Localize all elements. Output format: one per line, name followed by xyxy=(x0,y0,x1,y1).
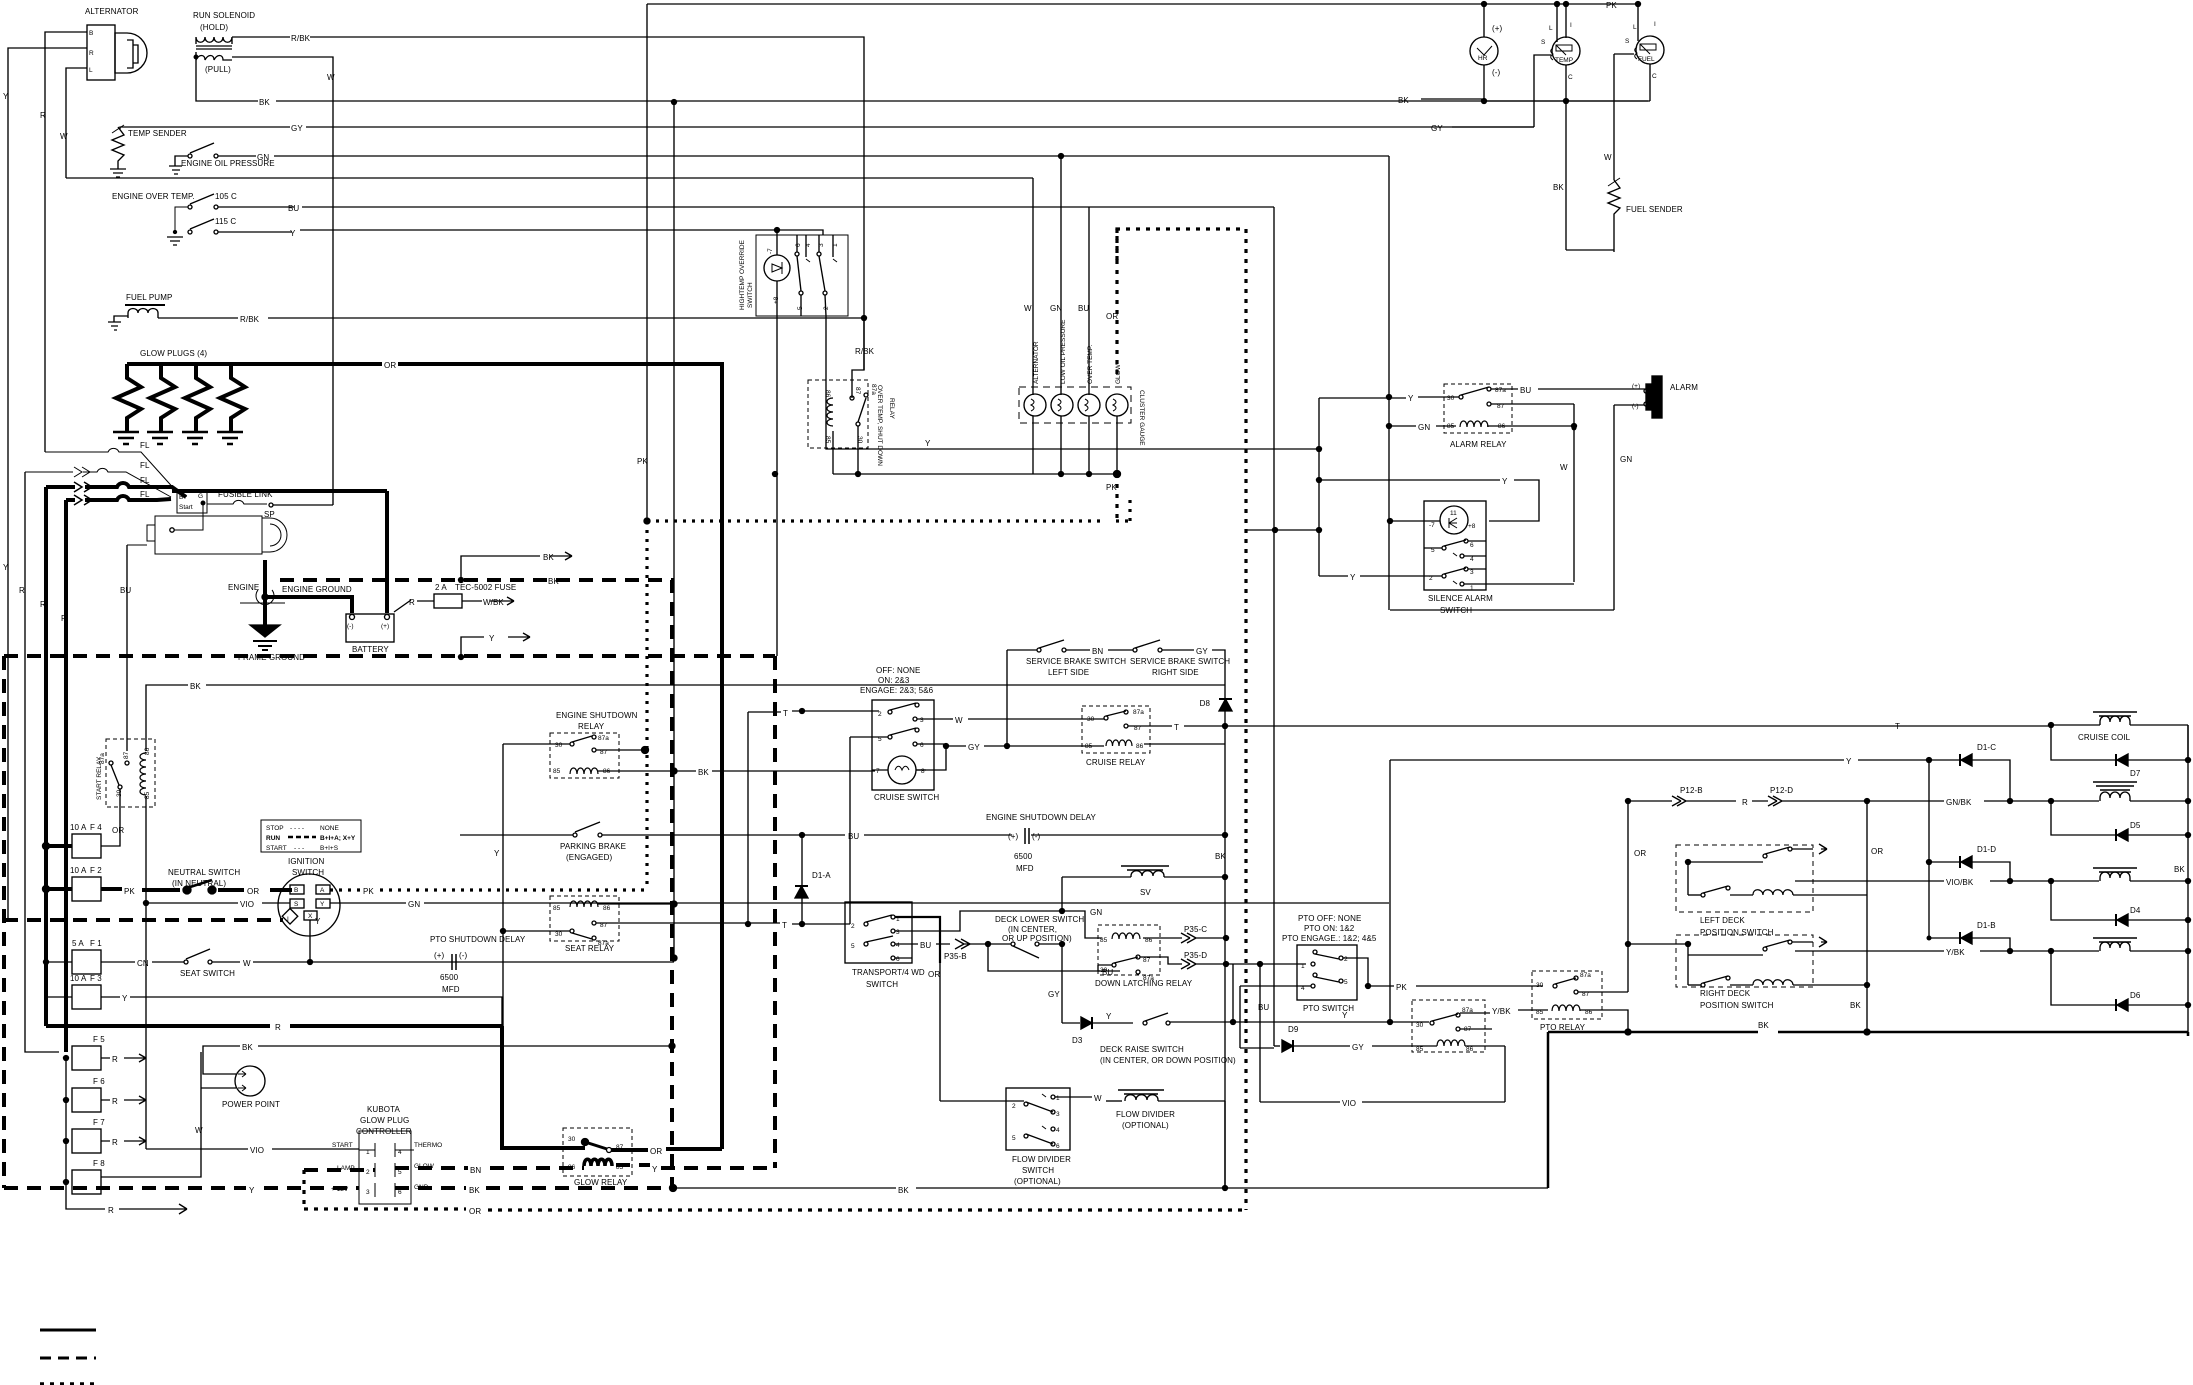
svg-text:5: 5 xyxy=(1012,1135,1016,1142)
svg-text:L: L xyxy=(1633,24,1637,31)
svg-text:OR: OR xyxy=(384,361,396,370)
coil 2 xyxy=(2093,782,2191,804)
svg-text:I: I xyxy=(1570,22,1572,29)
wire R bottom arrow xyxy=(66,1182,187,1214)
svg-text:SILENCE ALARM: SILENCE ALARM xyxy=(1428,594,1493,603)
flow divider switch xyxy=(1006,1088,1071,1186)
svg-text:8: 8 xyxy=(921,768,925,775)
svg-text:BK: BK xyxy=(2174,865,2185,874)
wire PK heavy F2 to ignition B xyxy=(46,889,292,890)
wire BU to over temp lamp xyxy=(1088,207,1090,395)
wire cruise sw 5 to T lower xyxy=(850,737,888,924)
wire BK dashed engine ground xyxy=(280,580,672,1188)
svg-text:BK: BK xyxy=(1850,1001,1861,1010)
svg-text:R: R xyxy=(61,614,67,623)
engine over temp switch 115C xyxy=(167,207,823,245)
wire GN alarm relay coil xyxy=(1389,425,1416,427)
wire BU transport sw pin4 xyxy=(895,943,918,945)
svg-text:(-): (-) xyxy=(1032,832,1041,841)
svg-text:2: 2 xyxy=(851,923,855,930)
coil 3 xyxy=(2093,868,2191,884)
svg-text:MFD: MFD xyxy=(442,985,460,994)
svg-text:30: 30 xyxy=(1100,967,1108,974)
wire Y ignition to silence alarm 2 xyxy=(1319,575,1348,577)
svg-text:VIO/BK: VIO/BK xyxy=(1946,878,1974,887)
svg-text:PK: PK xyxy=(637,457,648,466)
svg-text:Y: Y xyxy=(1502,477,1508,486)
svg-text:A: A xyxy=(320,887,325,894)
svg-text:F 1: F 1 xyxy=(90,939,102,948)
coil 4 xyxy=(2093,938,2191,954)
svg-text:BK: BK xyxy=(1398,96,1409,105)
svg-text:I: I xyxy=(1654,21,1656,28)
svg-text:Y: Y xyxy=(320,901,325,908)
svg-text:86: 86 xyxy=(603,905,611,912)
svg-text:D4: D4 xyxy=(2130,906,2141,915)
svg-text:SWITCH: SWITCH xyxy=(747,282,754,308)
engine shutdown delay capacitor xyxy=(986,813,1225,873)
flow divider coil optional xyxy=(1116,1090,1225,1188)
svg-text:ALTERNATOR: ALTERNATOR xyxy=(85,7,139,16)
svg-text:W: W xyxy=(1560,463,1568,472)
svg-text:HR: HR xyxy=(1478,55,1488,62)
wire flow divider sw pin2 feed xyxy=(940,1100,1024,1102)
wire Y thin x775 upper xyxy=(776,316,778,656)
svg-text:G: G xyxy=(198,493,203,500)
svg-text:(+): (+) xyxy=(1492,24,1503,33)
temp sender xyxy=(110,125,187,177)
wire Y arrow stub xyxy=(461,633,530,657)
svg-text:CN: CN xyxy=(137,959,149,968)
svg-text:30: 30 xyxy=(555,931,563,938)
svg-text:Y: Y xyxy=(652,1165,658,1174)
diode D6 xyxy=(2051,951,2191,1011)
svg-text:87a: 87a xyxy=(99,753,106,764)
svg-text:BK: BK xyxy=(548,577,559,586)
left deck position switch xyxy=(1676,844,1867,937)
engine oil pressure switch xyxy=(169,143,275,174)
SV solenoid xyxy=(1062,866,1225,911)
svg-text:87: 87 xyxy=(854,387,861,395)
wire T vertical to cruise xyxy=(747,712,749,924)
temp gauge xyxy=(1541,2,1580,104)
wire Y dashed to ignition I xyxy=(4,918,283,922)
svg-text:FL: FL xyxy=(140,461,150,470)
svg-text:6: 6 xyxy=(896,956,900,963)
svg-text:SERVICE BRAKE SWITCH: SERVICE BRAKE SWITCH xyxy=(1130,657,1230,666)
wire GY temp sender xyxy=(120,127,290,129)
svg-text:FUEL PUMP: FUEL PUMP xyxy=(126,293,172,302)
fuse F6 xyxy=(64,1077,147,1112)
wire Y dashed bottom xyxy=(4,1186,359,1190)
wire BK start relay 86 xyxy=(146,685,188,751)
svg-text:Y: Y xyxy=(290,229,296,238)
wire W run solenoid pull xyxy=(232,57,333,505)
svg-text:F 6: F 6 xyxy=(93,1077,105,1086)
svg-text:2: 2 xyxy=(1344,956,1348,963)
wire W cruise sw 3 to cruise relay 30 xyxy=(950,718,953,720)
svg-text:87: 87 xyxy=(1143,957,1151,964)
wire BU deck lower bypass xyxy=(988,944,1100,971)
svg-text:R: R xyxy=(89,50,94,57)
svg-text:BATTERY: BATTERY xyxy=(352,645,389,654)
alarm buzzer xyxy=(1614,376,1698,418)
wire W flow divider to coil xyxy=(1055,1096,1092,1098)
svg-text:VIO: VIO xyxy=(250,1146,264,1155)
svg-text:BK: BK xyxy=(469,1186,480,1195)
svg-text:F 2: F 2 xyxy=(90,866,102,875)
wire GY to temp gauge S xyxy=(1534,55,1551,127)
svg-text:BK: BK xyxy=(242,1043,253,1052)
svg-text:Y: Y xyxy=(249,1186,255,1195)
svg-text:3: 3 xyxy=(896,929,900,936)
svg-text:HIGHTEMP OVERRIDE: HIGHTEMP OVERRIDE xyxy=(739,239,746,310)
wire Y/BK latch 87a to PTO relay 85 xyxy=(1460,1012,1490,1014)
svg-text:ALARM RELAY: ALARM RELAY xyxy=(1450,440,1507,449)
svg-text:RELAY: RELAY xyxy=(578,722,605,731)
svg-text:R: R xyxy=(112,1138,118,1147)
svg-text:GN: GN xyxy=(408,900,420,909)
parking brake switch xyxy=(460,822,626,862)
svg-text:5: 5 xyxy=(851,943,855,950)
svg-text:86: 86 xyxy=(1136,743,1144,750)
svg-text:PK: PK xyxy=(124,887,135,896)
svg-text:R: R xyxy=(19,586,25,595)
svg-text:P12-D: P12-D xyxy=(1770,786,1793,795)
down latching relay xyxy=(1095,925,1193,988)
wire BK dashed vertical x672 segment with junctions xyxy=(671,768,677,774)
wire W to alternator lamp xyxy=(1032,178,1034,395)
svg-text:MFD: MFD xyxy=(1016,864,1034,873)
svg-text:RIGHT DECK: RIGHT DECK xyxy=(1700,989,1751,998)
svg-text:B+I+S: B+I+S xyxy=(320,845,339,852)
svg-text:GN/BK: GN/BK xyxy=(1946,798,1972,807)
svg-text:5: 5 xyxy=(1344,979,1348,986)
start relay xyxy=(96,739,155,807)
svg-text:FUSIBLE LINK: FUSIBLE LINK xyxy=(218,490,273,499)
svg-text:BU: BU xyxy=(288,204,299,213)
svg-text:PARKING BRAKE: PARKING BRAKE xyxy=(560,842,626,851)
fuse F3 xyxy=(46,962,502,1026)
svg-text:(-): (-) xyxy=(459,951,468,960)
wire VIO to controller xyxy=(145,903,147,1149)
svg-text:7: 7 xyxy=(876,768,880,775)
wire cruise relay 86 down xyxy=(1144,743,1225,745)
wire GN engine oil pressure xyxy=(274,155,1389,157)
svg-text:R: R xyxy=(112,1097,118,1106)
fuse F7 xyxy=(64,1118,147,1153)
svg-text:CRUISE COIL: CRUISE COIL xyxy=(2078,733,2131,742)
svg-text:S: S xyxy=(294,901,299,908)
svg-text:87a: 87a xyxy=(1580,972,1591,979)
svg-text:OR: OR xyxy=(1634,849,1646,858)
svg-text:Y: Y xyxy=(1106,1012,1112,1021)
svg-text:BK: BK xyxy=(898,1186,909,1195)
svg-text:GY: GY xyxy=(1048,990,1060,999)
svg-text:R/BK: R/BK xyxy=(855,347,875,356)
legend dotted xyxy=(40,1382,96,1385)
hour meter gauge xyxy=(1470,2,1503,104)
svg-text:OVER TEMP.: OVER TEMP. xyxy=(1087,345,1094,384)
svg-text:87a: 87a xyxy=(598,735,609,742)
svg-text:F 5: F 5 xyxy=(93,1035,105,1044)
silence alarm switch xyxy=(1388,501,1575,615)
svg-text:DECK RAISE SWITCH: DECK RAISE SWITCH xyxy=(1100,1045,1184,1054)
svg-text:Y/BK: Y/BK xyxy=(1492,1007,1511,1016)
svg-text:10 A: 10 A xyxy=(70,866,87,875)
svg-text:F 8: F 8 xyxy=(93,1159,105,1168)
svg-text:GN: GN xyxy=(1090,908,1102,917)
svg-text:GN: GN xyxy=(257,153,269,162)
svg-text:Y: Y xyxy=(1408,394,1414,403)
diode D1-D xyxy=(1927,760,2011,938)
svg-text:ENGAGE: 2&3; 5&6: ENGAGE: 2&3; 5&6 xyxy=(860,686,934,695)
svg-text:BN: BN xyxy=(1092,647,1103,656)
wire PK net top: vertical x647 xyxy=(646,4,648,521)
svg-text:R: R xyxy=(40,600,46,609)
PTC shutdown delay capacitor xyxy=(430,935,526,994)
svg-text:2: 2 xyxy=(823,306,830,310)
wire Y row to D1-C xyxy=(1390,759,1844,761)
engine ground heavy xyxy=(265,560,352,613)
wire BU vertical x1274 xyxy=(1273,207,1275,1046)
svg-text:W: W xyxy=(1024,304,1032,313)
glow plugs xyxy=(113,349,245,444)
wire BU parking brake to ESD xyxy=(602,834,845,836)
svg-text:Y: Y xyxy=(1350,573,1356,582)
svg-text:W: W xyxy=(1094,1094,1102,1103)
engine over temp switch 105C xyxy=(112,192,1274,213)
svg-text:3: 3 xyxy=(1056,1111,1060,1118)
svg-text:Y: Y xyxy=(1846,757,1852,766)
wire Y/BK row xyxy=(1795,950,1944,952)
svg-text:(-): (-) xyxy=(1632,403,1639,410)
svg-text:(-): (-) xyxy=(347,623,354,630)
wire VIO bottom xyxy=(1260,1101,1340,1103)
svg-text:Start: Start xyxy=(179,504,193,511)
svg-text:ENGINE: ENGINE xyxy=(228,583,259,592)
svg-text:D9: D9 xyxy=(1288,1025,1299,1034)
wire PK dotted vertical lower xyxy=(645,521,648,890)
wire BK deck coils common xyxy=(1866,801,1868,1032)
svg-text:T: T xyxy=(1174,723,1179,732)
svg-text:(IN CENTER, OR DOWN POSITION): (IN CENTER, OR DOWN POSITION) xyxy=(1100,1056,1236,1065)
svg-text:87a: 87a xyxy=(1495,387,1506,394)
svg-text:6: 6 xyxy=(398,1189,402,1196)
engine shutdown relay xyxy=(550,711,638,778)
svg-text:85: 85 xyxy=(553,905,561,912)
wire VIO/BK row xyxy=(1795,880,1944,882)
wire engine shutdown relay 30 xyxy=(503,743,570,745)
svg-text:85: 85 xyxy=(1536,1009,1544,1016)
wire BK dashed controller gnd xyxy=(395,1186,672,1190)
wire T seat relay 87 xyxy=(596,922,748,924)
svg-text:GLOW RELAY: GLOW RELAY xyxy=(574,1178,628,1187)
wire PK dotted from glow lamp down xyxy=(1115,474,1118,520)
deck lower switch xyxy=(995,915,1084,958)
svg-text:T: T xyxy=(783,709,788,718)
svg-text:C: C xyxy=(1568,74,1573,81)
svg-text:Y: Y xyxy=(315,917,321,926)
svg-text:Y: Y xyxy=(925,439,931,448)
svg-text:GLOW PLUGS (4): GLOW PLUGS (4) xyxy=(140,349,207,358)
svg-text:30: 30 xyxy=(1536,982,1544,989)
svg-text:OR: OR xyxy=(112,826,124,835)
svg-text:S: S xyxy=(1541,39,1546,46)
wire R/BK to over temp relay xyxy=(852,318,864,398)
wire PK dotted from ignition A xyxy=(330,888,645,891)
svg-text:GN: GN xyxy=(1620,455,1632,464)
wire R heavy horizontal lower xyxy=(46,1024,502,1028)
svg-text:L: L xyxy=(89,67,93,74)
svg-text:4: 4 xyxy=(1470,556,1474,563)
svg-text:2 A: 2 A xyxy=(435,583,447,592)
wire pto 2/5 to PK xyxy=(1343,958,1368,986)
wire OR riser x1628 xyxy=(1627,801,1629,992)
wire Y silence alarm top loop xyxy=(1319,479,1500,481)
battery + cable heavy xyxy=(385,491,389,613)
svg-text:R: R xyxy=(1742,798,1748,807)
svg-text:86: 86 xyxy=(144,747,151,755)
svg-text:OR: OR xyxy=(1871,847,1883,856)
fuse F8 xyxy=(64,1052,202,1194)
svg-text:105 C: 105 C xyxy=(215,192,237,201)
wire Y hightemp pin2 to silence area xyxy=(826,316,1319,449)
svg-text:W: W xyxy=(1604,153,1612,162)
wire Y x1319 vertical xyxy=(1318,398,1320,576)
svg-text:PK: PK xyxy=(1106,483,1117,492)
svg-text:PK: PK xyxy=(1606,1,1617,10)
svg-text:87a: 87a xyxy=(870,384,877,395)
svg-text:- - - -: - - - - xyxy=(290,825,304,832)
svg-text:LEFT SIDE: LEFT SIDE xyxy=(1048,668,1089,677)
cruise relay xyxy=(1082,706,1150,767)
wire engine shutdown relay 87 to PK xyxy=(596,749,645,751)
svg-text:-7: -7 xyxy=(767,248,774,254)
svg-text:SV: SV xyxy=(1140,888,1151,897)
svg-text:F 7: F 7 xyxy=(93,1118,105,1127)
svg-text:VIO: VIO xyxy=(240,900,254,909)
svg-text:4: 4 xyxy=(1056,1127,1060,1134)
svg-text:85: 85 xyxy=(1416,1046,1424,1053)
svg-text:POSITION SWITCH: POSITION SWITCH xyxy=(1700,928,1774,937)
svg-text:1: 1 xyxy=(1056,1095,1060,1102)
svg-text:GY: GY xyxy=(1352,1043,1364,1052)
svg-text:FL: FL xyxy=(140,476,150,485)
wire OR dotted to glow lamp xyxy=(1115,229,1118,380)
svg-text:30: 30 xyxy=(555,742,563,749)
right deck position switch xyxy=(1676,935,1867,1010)
wire transport sw pin1 heavy xyxy=(895,917,940,963)
svg-text:BK: BK xyxy=(698,768,709,777)
wire R vertical fuse feed (heavy) xyxy=(44,487,48,1026)
svg-text:W: W xyxy=(955,716,963,725)
wire BK run solenoid xyxy=(196,60,258,101)
fuel gauge xyxy=(1625,2,1664,102)
svg-text:115 C: 115 C xyxy=(215,217,236,226)
PTO switch xyxy=(1282,914,1377,1013)
hightemp override switch xyxy=(739,235,848,316)
diode D8 xyxy=(1219,698,1232,700)
svg-text:T: T xyxy=(1895,722,1900,731)
svg-text:30: 30 xyxy=(1416,1022,1424,1029)
wire OR start relay 30 to F4 xyxy=(101,789,120,846)
legend solid xyxy=(40,1329,96,1332)
svg-text:(OPTIONAL): (OPTIONAL) xyxy=(1014,1177,1061,1186)
svg-text:ENGINE SHUTDOWN DELAY: ENGINE SHUTDOWN DELAY xyxy=(986,813,1097,822)
svg-text:FL: FL xyxy=(140,490,150,499)
svg-text:PK: PK xyxy=(1396,983,1407,992)
svg-text:6: 6 xyxy=(1470,542,1474,549)
deck raise switch xyxy=(1100,964,1429,1065)
wire BK right bus xyxy=(2187,725,2189,1032)
svg-text:THERMO: THERMO xyxy=(414,1142,442,1149)
wire W alarm relay 87 xyxy=(1491,403,1574,405)
fuse F2 xyxy=(43,866,103,901)
svg-text:GY: GY xyxy=(968,743,980,752)
svg-text:S: S xyxy=(1625,38,1630,45)
svg-text:SEAT RELAY: SEAT RELAY xyxy=(565,944,615,953)
svg-text:POWER POINT: POWER POINT xyxy=(222,1100,280,1109)
ignition legend box xyxy=(261,820,361,852)
wire GY deck lower down xyxy=(1061,944,1063,1023)
transport 4wd switch xyxy=(845,902,925,989)
svg-text:86: 86 xyxy=(824,390,831,398)
bottom wire silence alarm box xyxy=(1390,609,1614,611)
svg-text:PTO ON: 1&2: PTO ON: 1&2 xyxy=(1304,924,1355,933)
svg-text:30: 30 xyxy=(1447,395,1455,402)
svg-text:SERVICE BRAKE SWITCH: SERVICE BRAKE SWITCH xyxy=(1026,657,1126,666)
wire BK top bus xyxy=(1421,98,1482,100)
wire P12 row xyxy=(1628,796,1736,806)
wire Y from alternator R xyxy=(8,48,87,920)
wire Y to alarm relay 30 xyxy=(1319,397,1406,399)
fusible link to SP xyxy=(207,500,267,504)
svg-text:PTO OFF: NONE: PTO OFF: NONE xyxy=(1298,914,1361,923)
svg-text:85: 85 xyxy=(1085,743,1093,750)
svg-text:Y: Y xyxy=(3,92,9,101)
svg-text:KUBOTA: KUBOTA xyxy=(367,1105,400,1114)
svg-text:87a: 87a xyxy=(1133,709,1144,716)
wire BK engine shutdown relay 86 xyxy=(598,770,696,772)
svg-text:B+: B+ xyxy=(179,494,187,501)
svg-text:RUN: RUN xyxy=(266,835,280,842)
svg-text:RIGHT SIDE: RIGHT SIDE xyxy=(1152,668,1199,677)
svg-text:RUN SOLENOID: RUN SOLENOID xyxy=(193,11,255,20)
wire fuel sender to BK xyxy=(1613,230,1615,252)
neutral switch xyxy=(168,868,240,894)
wire R vertical 2 (heavy) xyxy=(64,500,68,1052)
wire Y over temp relay 85 xyxy=(832,431,834,474)
big dashed box left xyxy=(2,656,6,1188)
svg-text:CLUSTER GAUGE: CLUSTER GAUGE xyxy=(1138,390,1145,446)
kubota glow plug controller xyxy=(331,1105,442,1204)
svg-text:ALARM: ALARM xyxy=(1670,383,1698,392)
svg-text:Y/BK: Y/BK xyxy=(1946,948,1965,957)
svg-text:87: 87 xyxy=(123,751,130,759)
svg-text:W: W xyxy=(195,1126,203,1135)
svg-text:(-): (-) xyxy=(1492,68,1501,77)
svg-text:T: T xyxy=(782,921,787,930)
svg-text:6: 6 xyxy=(920,742,924,749)
svg-text:P35-B: P35-B xyxy=(944,952,967,961)
seat relay xyxy=(550,896,619,953)
svg-text:RELAY: RELAY xyxy=(888,398,895,419)
svg-text:ON: 2&3: ON: 2&3 xyxy=(878,676,910,685)
svg-text:Y: Y xyxy=(494,849,500,858)
pto relay xyxy=(1532,971,1602,1032)
svg-text:POSITION SWITCH: POSITION SWITCH xyxy=(1700,1001,1774,1010)
